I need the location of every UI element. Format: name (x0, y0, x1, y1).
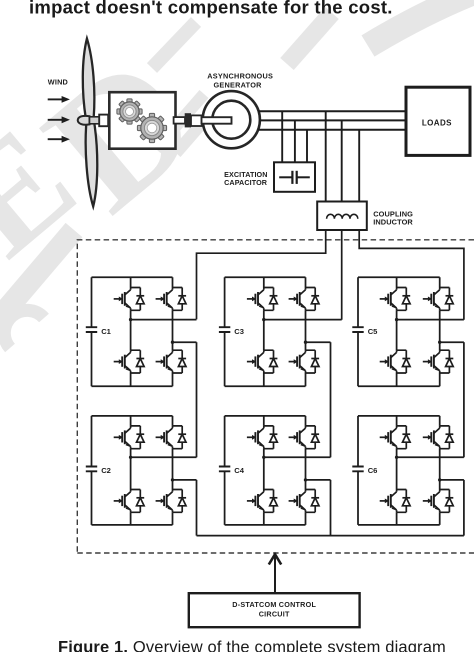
series link wire C3 to C4 (330, 342, 332, 457)
neutral drop wire from C2 (196, 480, 198, 536)
cell C4 right leg wire (305, 416, 307, 525)
IGBT with antiparallel diode, C6 lower-left (380, 490, 411, 513)
shaft brake block (185, 113, 191, 127)
gear 2 (low-speed) (137, 113, 166, 142)
coupling inductor box (317, 202, 367, 231)
cell C2 bottom DC rail (92, 524, 173, 526)
IGBT with antiparallel diode, C2 upper-right (156, 426, 187, 449)
cell C5 AC terminal wire (left leg midpoint) (397, 319, 464, 321)
label COUPLING INDUCTOR (373, 210, 413, 227)
IGBT with antiparallel diode, C6 upper-left (380, 426, 411, 449)
cell C1 AC terminal wire (right leg midpoint) (173, 341, 197, 343)
series link wire C1 to C2 (196, 342, 198, 457)
IGBT with antiparallel diode, C5 upper-right (423, 288, 454, 311)
IGBT with antiparallel diode, C1 lower-left (114, 350, 145, 373)
svg-text:D-STATCOM CONTROL: D-STATCOM CONTROL (232, 600, 316, 609)
cell C2 AC terminal wire (right leg midpoint) (173, 479, 197, 481)
cell C6 bottom DC rail (358, 524, 440, 526)
IGBT with antiparallel diode, C2 lower-left (114, 490, 145, 513)
H-bridge cell C4 (219, 416, 331, 525)
IGBT with antiparallel diode, C3 lower-left (247, 350, 278, 373)
cell C3 right leg wire (305, 277, 307, 386)
phase A feeder wire (197, 230, 326, 319)
D-STATCOM control circuit box (189, 593, 360, 627)
generator rotor circle (212, 101, 250, 139)
neutral drop wire from C4 (330, 480, 332, 536)
cell C5 left leg wire (396, 277, 398, 386)
IGBT with antiparallel diode, C5 lower-left (380, 350, 411, 373)
label EXCITATION CAPACITOR (224, 170, 268, 187)
IGBT with antiparallel diode, C5 lower-right (423, 350, 454, 373)
cell C6 right leg wire (439, 416, 441, 525)
cell C6 AC terminal wire (left leg midpoint) (397, 456, 464, 458)
gear 1 (high-speed) (117, 99, 142, 124)
H-bridge cell C2 (86, 416, 197, 525)
dashed D-STATCOM boundary box (77, 240, 474, 553)
cell C4 left leg wire (263, 416, 265, 525)
IGBT with antiparallel diode, C3 lower-right (289, 350, 320, 373)
IGBT with antiparallel diode, C6 lower-right (423, 490, 454, 513)
H-bridge cell C6 (352, 416, 464, 525)
watermark (0, 0, 474, 348)
wire taps to coupling inductor (326, 111, 360, 202)
svg-text:CIRCUIT: CIRCUIT (259, 609, 290, 618)
IGBT with antiparallel diode, C2 upper-left (114, 426, 145, 449)
wind arrow 3 (48, 136, 70, 143)
capacitor C2 (91, 416, 93, 525)
cell C4 AC terminal wire (left leg midpoint) (264, 456, 331, 458)
IGBT with antiparallel diode, C2 lower-right (156, 490, 187, 513)
IGBT with antiparallel diode, C4 upper-left (247, 426, 278, 449)
svg-text:Figure 1. Overview of the comp: Figure 1. Overview of the complete syste… (58, 638, 446, 652)
H-bridge cell C1 (86, 277, 197, 386)
label D-STATCOM CONTROL CIRCUIT (232, 600, 316, 618)
loads box (406, 87, 470, 155)
cell C2 AC terminal wire (left leg midpoint) (131, 456, 197, 458)
cell C5 top DC rail (358, 276, 440, 278)
svg-text:GENERATOR: GENERATOR (213, 80, 262, 89)
capacitor C5 (357, 277, 359, 386)
cell C1 left leg wire (130, 277, 132, 386)
phase B feeder wire (341, 230, 343, 320)
cell C3 AC terminal wire (right leg midpoint) (306, 341, 331, 343)
wind arrow 1 (48, 96, 70, 103)
cell C4 AC terminal wire (right leg midpoint) (306, 479, 331, 481)
phase C feeder wire (359, 230, 464, 320)
svg-text:C4: C4 (234, 466, 244, 475)
cell C4 bottom DC rail (225, 524, 306, 526)
IGBT with antiparallel diode, C3 upper-left (247, 288, 278, 311)
svg-text:C5: C5 (368, 327, 378, 336)
capacitor C4 (224, 416, 226, 525)
cell C6 AC terminal wire (right leg midpoint) (440, 479, 464, 481)
IGBT with antiparallel diode, C1 lower-right (156, 350, 187, 373)
svg-text:ASYNCHRONOUS: ASYNCHRONOUS (207, 72, 273, 81)
svg-text:C3: C3 (234, 327, 244, 336)
svg-text:impact doesn't compensate for: impact doesn't compensate for the cost. (29, 0, 393, 18)
wind arrow 2 (48, 116, 70, 123)
series link wire C5 to C6 (463, 342, 465, 457)
svg-text:C2: C2 (101, 466, 111, 475)
cell C6 left leg wire (396, 416, 398, 525)
cell C3 left leg wire (263, 277, 265, 386)
svg-text:INDUCTOR: INDUCTOR (373, 217, 413, 226)
excitation capacitor box (274, 162, 315, 192)
shaft coupler block (99, 115, 108, 127)
cell C2 top DC rail (92, 415, 173, 417)
cell C3 bottom DC rail (225, 385, 306, 387)
excitation capacitor symbol (279, 171, 310, 184)
wire taps to excitation capacitor (282, 111, 307, 162)
cell C2 right leg wire (172, 416, 174, 525)
cell C5 right leg wire (439, 277, 441, 386)
capacitor C3 (224, 277, 226, 386)
H-bridge cell C3 (219, 277, 342, 386)
label ASYNCHRONOUS GENERATOR (207, 72, 273, 90)
IGBT with antiparallel diode, C4 lower-left (247, 490, 278, 513)
svg-text:CAPACITOR: CAPACITOR (224, 178, 268, 187)
IGBT with antiparallel diode, C1 upper-right (156, 288, 187, 311)
cell C5 AC terminal wire (right leg midpoint) (440, 341, 464, 343)
neutral bus wire (197, 535, 464, 537)
H-bridge cell C5 (352, 277, 464, 386)
asynchronous generator outer frame (203, 91, 260, 148)
svg-text:WIND: WIND (48, 77, 68, 86)
IGBT with antiparallel diode, C3 upper-right (289, 288, 320, 311)
high-speed shaft tube (174, 117, 185, 124)
generator shaft bar (202, 117, 232, 124)
cell C3 top DC rail (225, 276, 306, 278)
svg-text:LOADS: LOADS (422, 118, 452, 127)
neutral drop wire from C6 (463, 480, 465, 536)
svg-text:C6: C6 (368, 466, 378, 475)
cell C1 bottom DC rail (92, 385, 173, 387)
shaft bearing box (191, 115, 202, 126)
cell C5 bottom DC rail (358, 385, 440, 387)
coupling inductor winding symbol (327, 214, 358, 218)
cell C4 top DC rail (225, 415, 306, 417)
low-speed shaft (90, 117, 100, 124)
gearbox (109, 92, 175, 149)
three-phase bus wires (258, 111, 405, 130)
IGBT with antiparallel diode, C1 upper-left (114, 288, 145, 311)
rotor hub / nose cone (78, 116, 90, 125)
control arrow to converter (269, 554, 281, 593)
IGBT with antiparallel diode, C6 upper-right (423, 426, 454, 449)
cell C1 right leg wire (172, 277, 174, 386)
IGBT with antiparallel diode, C4 upper-right (289, 426, 320, 449)
cell C6 top DC rail (358, 415, 440, 417)
cell C1 AC terminal wire (left leg midpoint) (131, 319, 197, 321)
wind turbine blades (81, 38, 99, 206)
cell C3 AC terminal wire (left leg midpoint) (264, 319, 342, 321)
IGBT with antiparallel diode, C4 lower-right (289, 490, 320, 513)
cell C1 top DC rail (92, 276, 173, 278)
capacitor C1 (91, 277, 93, 386)
IGBT with antiparallel diode, C5 upper-left (380, 288, 411, 311)
cell C2 left leg wire (130, 416, 132, 525)
svg-text:C1: C1 (101, 327, 111, 336)
capacitor C6 (357, 416, 359, 525)
